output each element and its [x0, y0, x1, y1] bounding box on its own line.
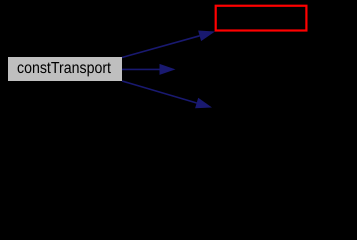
svg-text:constTransport: constTransport — [17, 60, 111, 77]
